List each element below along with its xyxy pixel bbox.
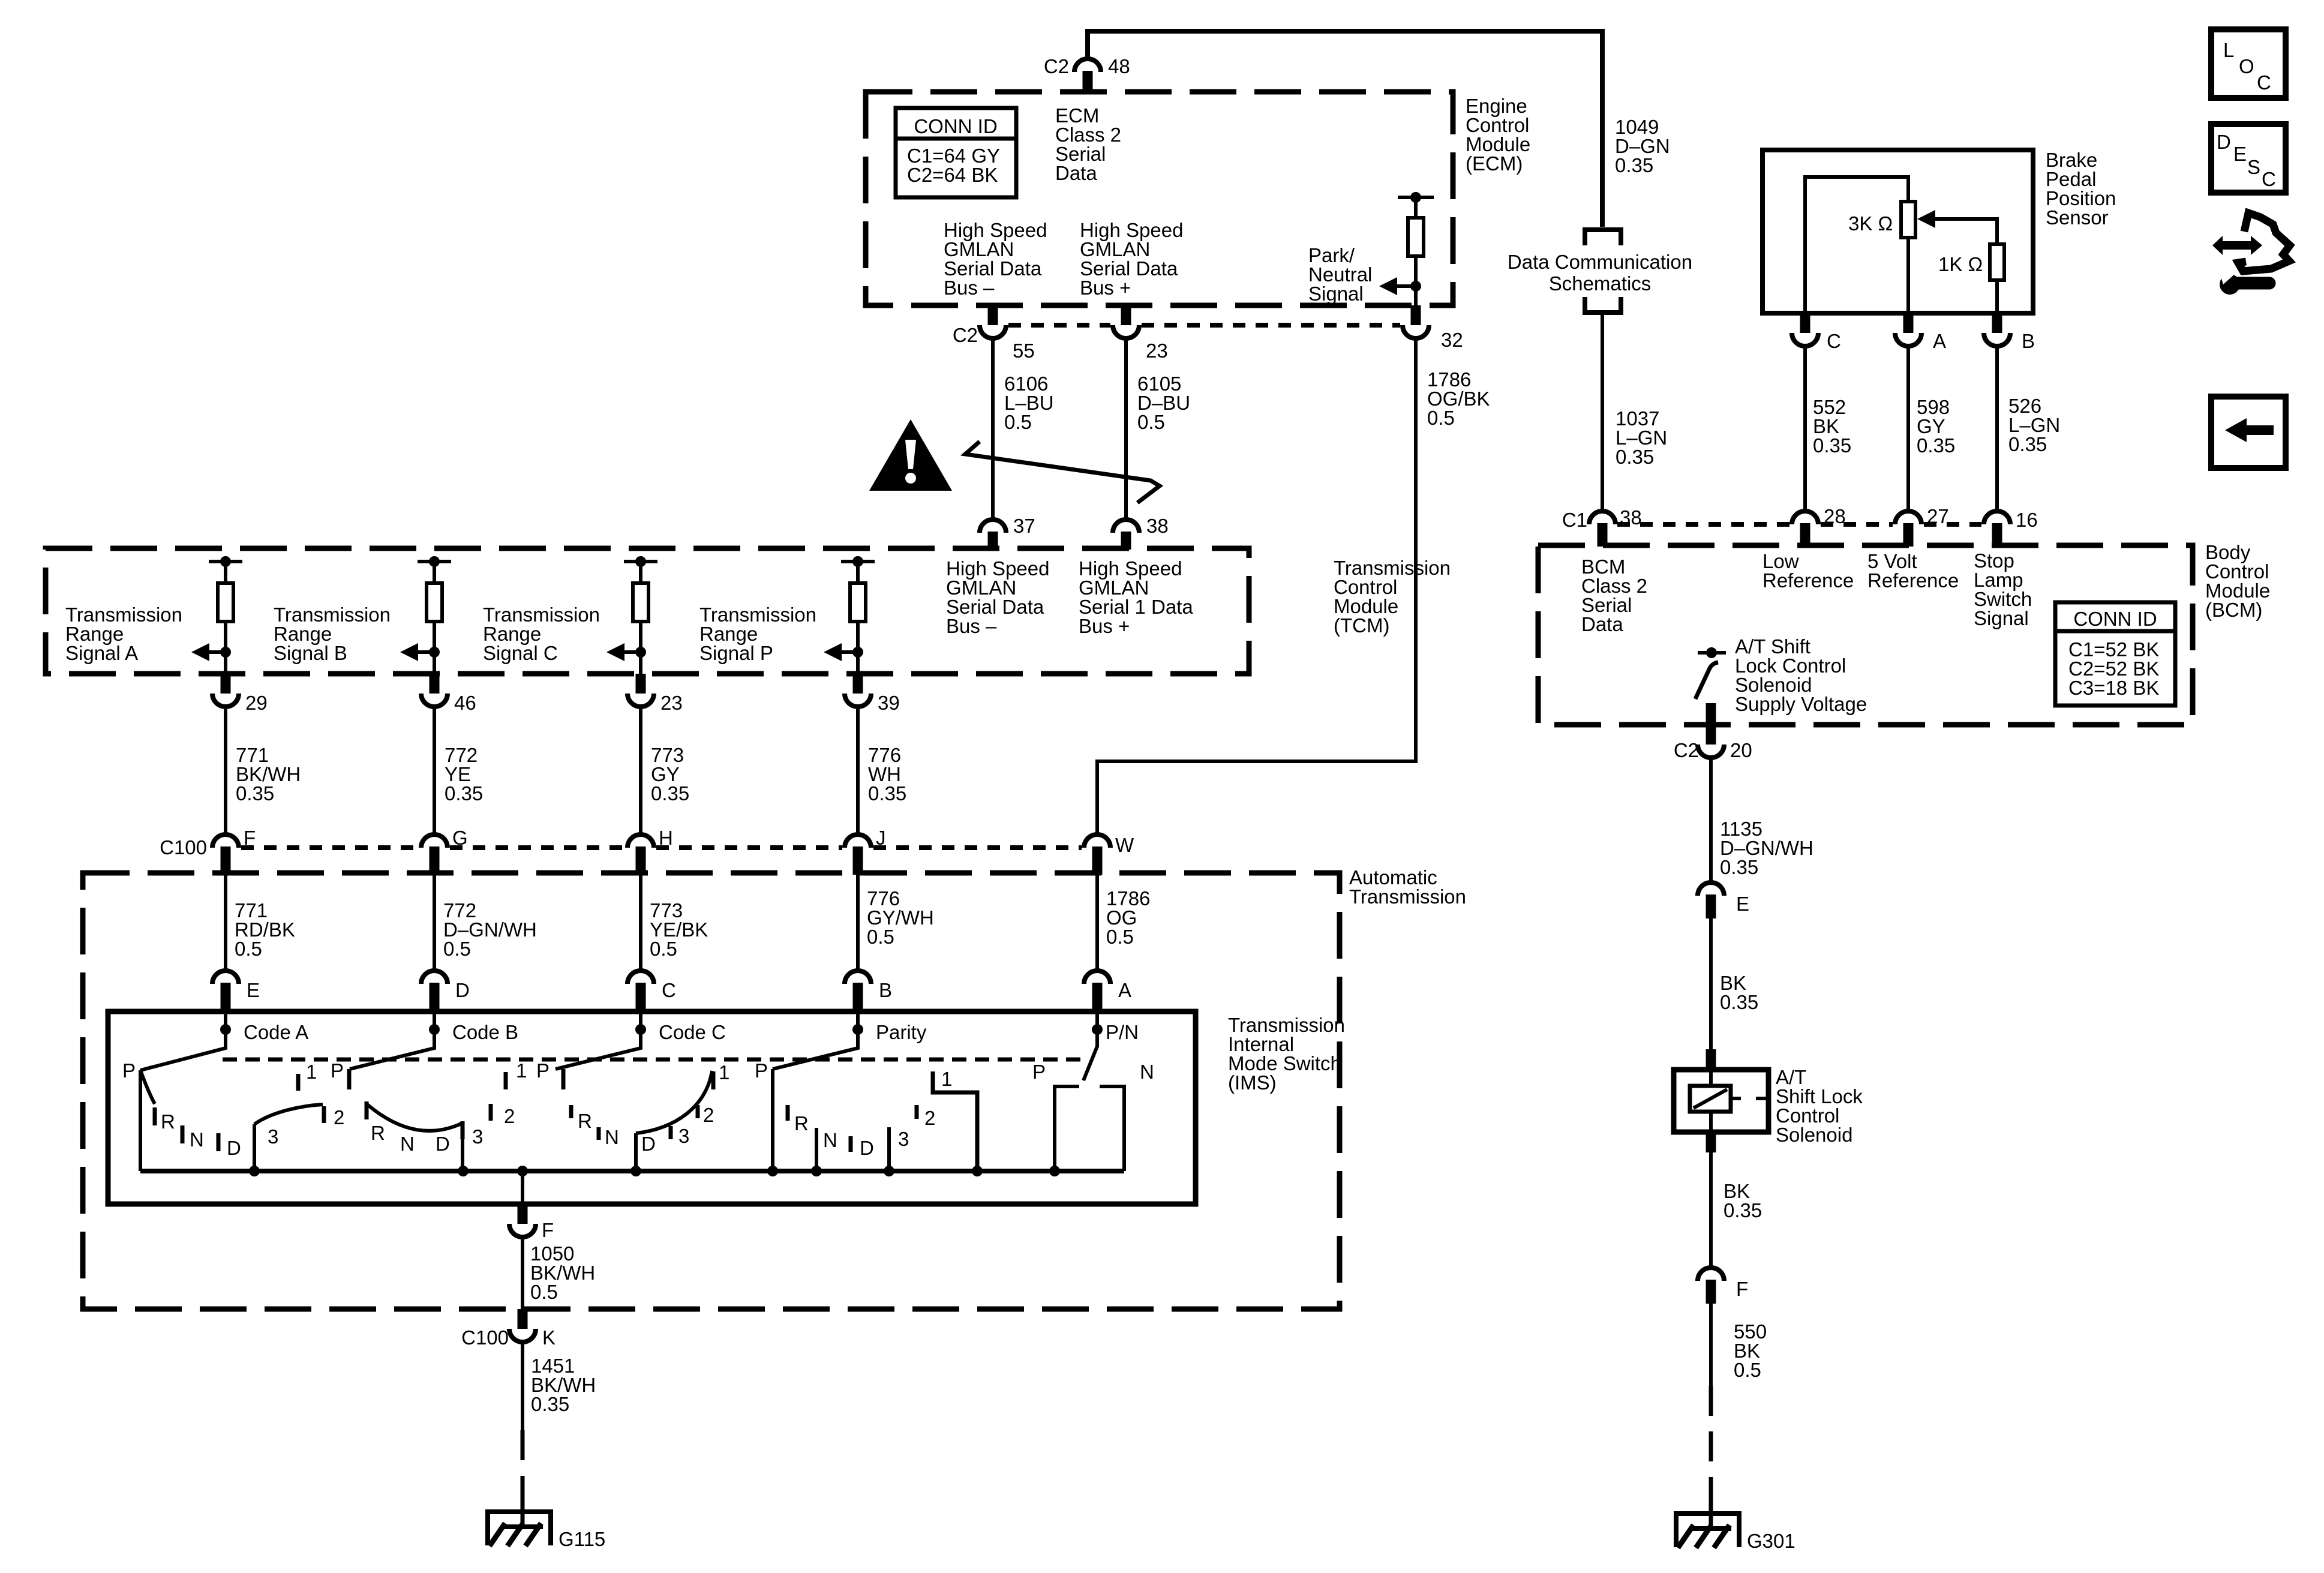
wire 772 YE 0.35 from TCM 46 to C100: [433, 707, 436, 834]
brake sensor internal wiring loop (pin C to 3K): [1805, 177, 1908, 313]
wire 1037 L-GN 0.35 from symbol to BCM C1 38: [1601, 314, 1604, 512]
svg-text:0.5: 0.5: [530, 1281, 558, 1303]
Code B contact smile arc with R-N-D positions: [365, 1101, 369, 1119]
Code C R and N position ticks: [569, 1105, 574, 1118]
wire 771 RD/BK 0.5 from C100 to IMS pin E: [224, 873, 227, 972]
svg-text:Code C: Code C: [659, 1021, 726, 1043]
TCM internal pull-up resistor for Signal C: [624, 560, 657, 563]
svg-text:2: 2: [504, 1105, 515, 1127]
svg-text:E: E: [1736, 893, 1749, 915]
svg-text:Reference: Reference: [1867, 569, 1959, 592]
svg-text:Parity: Parity: [876, 1021, 927, 1043]
Transmission Internal Mode Switch (IMS) solid box: [108, 1011, 1196, 1204]
C100 inline harness connector dotted line: [241, 845, 419, 850]
svg-text:0.5: 0.5: [650, 938, 677, 960]
svg-text:C3=18 BK: C3=18 BK: [2068, 677, 2159, 699]
wire 1786 OG/BK 0.5 from ECM 32 down and left to transmission connector W: [1097, 338, 1416, 834]
svg-text:N: N: [823, 1129, 837, 1151]
connector BCM pin 28: [1792, 511, 1818, 524]
svg-text:D: D: [455, 979, 470, 1001]
Signal P arrow junction: [852, 647, 863, 658]
svg-text:D: D: [227, 1137, 241, 1159]
connector C100 cavity H: [627, 834, 654, 848]
ground G115 symbol: [485, 1509, 553, 1514]
svg-text:R: R: [371, 1122, 385, 1144]
svg-text:27: 27: [1927, 505, 1949, 527]
svg-text:N: N: [400, 1133, 415, 1155]
IMS internal dashed position line: [223, 1058, 1089, 1062]
svg-text:0.5: 0.5: [443, 938, 471, 960]
potentiometer wiper arrow and 1K ohm resistor: [1917, 210, 1935, 228]
svg-text:0.35: 0.35: [868, 782, 906, 804]
svg-text:0.35: 0.35: [1615, 154, 1653, 176]
connector IMS pin F: [518, 1204, 528, 1224]
svg-text:0.35: 0.35: [236, 782, 274, 804]
Code A wiper contact curve and P-R-N-D ticks: [140, 1070, 155, 1104]
svg-text:C: C: [2262, 168, 2276, 190]
svg-text:R: R: [161, 1110, 175, 1133]
connector C100 cavity W: [1084, 834, 1110, 848]
svg-text:C: C: [2257, 71, 2271, 94]
svg-text:(IMS): (IMS): [1228, 1071, 1277, 1094]
IMS switch wiper Parity with node dot: [773, 1014, 858, 1069]
svg-text:32: 32: [1441, 329, 1463, 351]
svg-text:0.5: 0.5: [867, 926, 894, 948]
svg-text:3: 3: [268, 1125, 278, 1148]
wire class-2 serial data from ECM pin 48 to data-communication symbol: [1088, 31, 1602, 227]
IMS bus wire to ground splice: [140, 1169, 1124, 1173]
svg-text:1: 1: [941, 1068, 952, 1090]
svg-text:48: 48: [1108, 55, 1130, 77]
svg-text:Signal: Signal: [1974, 607, 2029, 629]
svg-text:Solenoid: Solenoid: [1776, 1124, 1852, 1146]
svg-text:N: N: [190, 1128, 204, 1151]
LOC legend icon box: [2211, 29, 2286, 98]
svg-text:3: 3: [472, 1125, 483, 1148]
svg-text:L: L: [2223, 39, 2234, 61]
svg-text:C2=64 BK: C2=64 BK: [907, 164, 998, 186]
connector BCM C2 pin 20: [1706, 725, 1716, 745]
connector IMS pin C: [627, 971, 654, 984]
svg-text:CONN ID: CONN ID: [2073, 608, 2157, 630]
connector IMS pin A: [1084, 971, 1110, 984]
solenoid coil element: [1690, 1086, 1731, 1112]
connector brake sensor pin B: [1992, 313, 2002, 333]
wrench and double-arrow legend icon: [2212, 236, 2262, 255]
svg-text:20: 20: [1730, 739, 1752, 761]
svg-text:K: K: [542, 1326, 556, 1349]
IMS switch wiper Code C with node dot: [556, 1014, 641, 1069]
svg-text:0.5: 0.5: [235, 938, 262, 960]
svg-text:0.5: 0.5: [1427, 407, 1455, 429]
svg-text:1: 1: [516, 1059, 527, 1082]
svg-text:37: 37: [1013, 515, 1035, 537]
connector TCM pin 39: [853, 674, 863, 694]
A/T shift lock control solenoid box: [1706, 1049, 1716, 1071]
svg-text:39: 39: [878, 692, 900, 714]
svg-text:0.35: 0.35: [1616, 446, 1654, 468]
svg-text:Reference: Reference: [1762, 569, 1854, 592]
svg-text:E: E: [2233, 143, 2247, 165]
inline connector E (solenoid feed): [1698, 882, 1724, 896]
svg-text:2: 2: [924, 1107, 935, 1129]
ECM CONN ID table: [896, 108, 1016, 197]
IMS splice drop to connector F: [521, 1171, 524, 1204]
svg-text:B: B: [879, 979, 892, 1001]
svg-text:D: D: [2217, 131, 2231, 153]
svg-text:0.35: 0.35: [531, 1393, 569, 1415]
connector brake sensor pin C: [1800, 313, 1810, 333]
svg-text:1K Ω: 1K Ω: [1938, 253, 1983, 275]
svg-text:3K Ω: 3K Ω: [1848, 212, 1893, 235]
svg-text:C2: C2: [1044, 55, 1069, 77]
inline connector F (solenoid ground): [1698, 1268, 1724, 1281]
connector TCM pin 38 (High Speed GMLAN Bus +): [1113, 520, 1139, 533]
wire 1050 BK/WH 0.5 from IMS F to C100 K: [521, 1237, 524, 1309]
TCM internal pull-up resistor for Signal P: [841, 560, 875, 563]
svg-text:C2: C2: [1674, 739, 1699, 761]
wire 598 GY 0.35 from pin A to BCM 27: [1906, 346, 1910, 512]
warning triangle with exclamation mark: [869, 419, 952, 491]
svg-text:Supply Voltage: Supply Voltage: [1735, 693, 1867, 715]
svg-text:P: P: [755, 1059, 768, 1082]
svg-text:Data Communication: Data Communication: [1508, 251, 1692, 273]
Code B contact drop to bus: [461, 1139, 464, 1171]
svg-text:1: 1: [306, 1061, 317, 1083]
svg-text:C: C: [1827, 330, 1841, 352]
wire 772 D–GN/WH 0.5 from C100 to IMS pin D: [433, 873, 436, 972]
svg-text:D: D: [860, 1137, 874, 1159]
connector IMS pin E: [212, 971, 239, 984]
connector C100 cavity K: [518, 1309, 528, 1329]
brake pedal position sensor box: [1762, 150, 2033, 313]
wire 1451 BK/WH 0.35 to ground G115: [521, 1342, 524, 1430]
Automatic Transmission dashed box: [83, 873, 1340, 1309]
svg-text:P: P: [536, 1059, 550, 1082]
Code C stationary contact arc down to bus: [636, 1071, 712, 1133]
Signal A arrow junction: [220, 647, 231, 658]
IMS switch wiper Code B with node dot: [350, 1014, 434, 1069]
svg-text:0.35: 0.35: [2008, 433, 2047, 455]
svg-text:38: 38: [1146, 515, 1169, 537]
TCM dashed module box (contains transmission range signal circuits): [46, 548, 1249, 674]
wire 1135 D-GN/WH 0.35 from BCM 20 to splice E: [1709, 758, 1713, 882]
Code A stationary contact arc to bus: [254, 1104, 323, 1124]
wire 6106 L-BU 0.5 from ECM 55 to TCM 37: [991, 338, 995, 521]
svg-text:F: F: [542, 1219, 554, 1241]
connector TCM pin 29: [221, 674, 231, 694]
svg-text:D: D: [641, 1133, 656, 1155]
wire BK 0.35 from solenoid to connector F: [1709, 1152, 1713, 1268]
svg-text:3: 3: [898, 1128, 909, 1150]
svg-text:Signal B: Signal B: [274, 642, 347, 664]
IMS switch wiper Code A with node dot: [140, 1014, 226, 1070]
connector TCM pin 23: [636, 674, 646, 694]
svg-text:C1: C1: [1562, 509, 1587, 531]
svg-text:Data: Data: [1055, 162, 1097, 184]
connector brake sensor pin A: [1903, 313, 1914, 333]
Signal B arrow junction: [429, 647, 440, 658]
svg-text:23: 23: [660, 692, 683, 714]
connector C100 cavity J: [845, 834, 871, 848]
svg-text:0.5: 0.5: [1137, 411, 1165, 433]
svg-text:P: P: [122, 1059, 136, 1082]
svg-text:CONN ID: CONN ID: [914, 115, 997, 137]
svg-text:D: D: [436, 1133, 450, 1155]
svg-text:2: 2: [334, 1106, 344, 1128]
svg-text:C2: C2: [953, 324, 978, 346]
svg-text:P: P: [1032, 1061, 1046, 1083]
svg-text:W: W: [1115, 834, 1134, 856]
svg-text:C100: C100: [160, 836, 207, 858]
connector C2 pin 23 (ECM): [1121, 305, 1131, 325]
svg-text:0.35: 0.35: [1917, 434, 1955, 457]
park/neutral signal arrow junction: [1410, 281, 1421, 292]
svg-text:(BCM): (BCM): [2205, 599, 2262, 621]
Parity P contact drop to bus: [771, 1069, 774, 1171]
svg-text:R: R: [578, 1110, 592, 1132]
wire 1786 OG 0.5 from C100 to IMS pin A: [1095, 873, 1099, 972]
svg-text:G301: G301: [1747, 1530, 1795, 1552]
svg-text:3: 3: [678, 1125, 689, 1147]
svg-text:55: 55: [1013, 340, 1035, 362]
svg-text:0.35: 0.35: [1720, 991, 1758, 1013]
svg-text:B: B: [2022, 330, 2035, 352]
TCM internal pull-up resistor for Signal B: [418, 560, 451, 563]
svg-text:Code A: Code A: [244, 1021, 308, 1043]
potentiometer 3K ohm resistor: [1901, 202, 1915, 238]
svg-text:O: O: [2239, 55, 2254, 77]
connector TCM pin 37 (High Speed GMLAN Bus -): [980, 520, 1006, 533]
BCM internal A/T shift lock control switch: [1698, 651, 1726, 655]
svg-text:0.35: 0.35: [651, 782, 689, 804]
breakout slash arrow symbol across GMLAN wires: [965, 442, 1160, 503]
svg-text:P/N: P/N: [1106, 1021, 1139, 1043]
svg-text:16: 16: [2016, 509, 2038, 531]
svg-text:(ECM): (ECM): [1466, 152, 1523, 175]
wire 776 GY/WH 0.5 from C100 to IMS pin B: [856, 873, 860, 972]
svg-text:0.5: 0.5: [1106, 926, 1134, 948]
svg-text:0.35: 0.35: [1813, 434, 1851, 457]
ECM dashed module box: [866, 92, 1453, 305]
svg-text:Bus –: Bus –: [944, 277, 995, 299]
svg-text:N: N: [1140, 1061, 1154, 1083]
svg-text:E: E: [247, 979, 260, 1001]
svg-text:0.5: 0.5: [1734, 1359, 1761, 1381]
svg-text:0.35: 0.35: [1720, 856, 1758, 878]
svg-text:H: H: [659, 827, 673, 849]
connector IMS pin D: [421, 971, 448, 984]
connector C2 pin 48 into ECM: [1074, 59, 1101, 72]
svg-text:F: F: [1736, 1278, 1748, 1300]
svg-text:Sensor: Sensor: [2046, 206, 2109, 229]
wire 773 YE/BK 0.5 from C100 to IMS pin C: [639, 873, 642, 972]
BCM dashed module box: [1538, 545, 2193, 725]
svg-text:G115: G115: [559, 1528, 605, 1550]
IMS switch wiper P/N with node dot: [1083, 1014, 1097, 1080]
svg-text:1: 1: [719, 1061, 729, 1083]
svg-text:Signal: Signal: [1308, 283, 1364, 305]
svg-text:G: G: [452, 827, 468, 849]
BCM connector row dotted harness line: [1617, 522, 1789, 527]
svg-text:A: A: [1118, 979, 1131, 1001]
wire 773 GY 0.35 from TCM 23 to C100: [639, 707, 642, 834]
wire BK 0.35 from E to shift lock solenoid: [1709, 918, 1713, 1051]
svg-text:F: F: [244, 827, 256, 849]
svg-text:R: R: [794, 1112, 809, 1134]
data communication schematics off-page reference symbol: [1585, 230, 1621, 245]
svg-text:C: C: [662, 979, 676, 1001]
wire 771 BK/WH 0.35 from TCM 29 to C100: [224, 707, 227, 834]
wire 550 BK 0.5 to ground G301: [1709, 1304, 1713, 1386]
svg-text:0.35: 0.35: [445, 782, 483, 804]
connector C100 cavity F: [212, 834, 239, 848]
connector BCM C1 pin 38: [1589, 511, 1616, 524]
svg-text:Data: Data: [1581, 613, 1623, 635]
Parity N contact drop to bus: [815, 1128, 818, 1171]
left arrow legend icon box: [2211, 397, 2286, 468]
svg-text:(TCM): (TCM): [1334, 614, 1389, 637]
connector BCM pin 27: [1895, 511, 1921, 524]
BCM CONN ID table: [2055, 602, 2175, 706]
wire 6105 D-BU 0.5 from ECM 23 to TCM 38: [1124, 338, 1128, 521]
svg-text:2: 2: [703, 1104, 714, 1126]
connector C2 pin 55 (ECM): [988, 305, 998, 325]
connector BCM pin 16: [1984, 511, 2010, 524]
svg-text:29: 29: [245, 692, 268, 714]
connector TCM pin 46: [430, 674, 440, 694]
ECM bottom connector row dotted harness line C2: [1008, 323, 1110, 328]
svg-text:Transmission: Transmission: [1349, 885, 1466, 908]
svg-text:0.5: 0.5: [1004, 411, 1032, 433]
resistor inside ECM (park/neutral): [1414, 197, 1418, 218]
ECM internal park/neutral pull-up resistor node tick: [1398, 196, 1434, 199]
svg-text:Bus +: Bus +: [1079, 615, 1130, 637]
svg-text:Bus –: Bus –: [946, 615, 997, 637]
svg-text:Signal C: Signal C: [483, 642, 558, 664]
svg-text:38: 38: [1620, 506, 1642, 529]
connector C2 pin 32 (ECM): [1411, 305, 1421, 325]
svg-text:46: 46: [454, 692, 476, 714]
wire 776 WH 0.35 from TCM 39 to C100: [856, 707, 860, 834]
svg-text:J: J: [876, 827, 886, 849]
svg-text:N: N: [605, 1126, 619, 1148]
svg-text:Bus +: Bus +: [1080, 277, 1131, 299]
svg-text:A: A: [1933, 330, 1946, 352]
wire 552 BK 0.35 from pin C to BCM 28: [1803, 346, 1807, 512]
connector IMS pin B: [845, 971, 871, 984]
svg-text:Signal P: Signal P: [699, 642, 773, 664]
svg-text:28: 28: [1824, 505, 1846, 527]
svg-text:Code B: Code B: [452, 1021, 518, 1043]
svg-text:S: S: [2247, 156, 2260, 178]
Signal C arrow junction: [635, 647, 646, 658]
connector C100 cavity G: [421, 834, 448, 848]
ground G301 symbol: [1674, 1511, 1742, 1516]
svg-text:P: P: [331, 1059, 344, 1082]
svg-text:Schematics: Schematics: [1549, 272, 1652, 295]
svg-text:C100: C100: [461, 1326, 509, 1349]
TCM internal pull-up resistor for Signal A: [209, 560, 242, 563]
svg-text:23: 23: [1146, 340, 1168, 362]
Parity 3 contact drop to bus: [887, 1127, 891, 1171]
DESC legend icon box: [2211, 124, 2286, 193]
svg-text:Signal A: Signal A: [65, 642, 138, 664]
wire 526 L-GN 0.35 from pin B to BCM 16: [1995, 346, 1999, 512]
svg-text:0.35: 0.35: [1724, 1199, 1762, 1221]
